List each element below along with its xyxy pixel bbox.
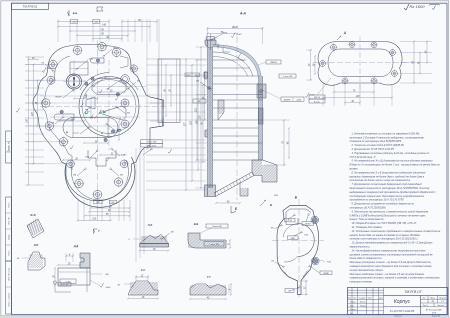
svg-text:Сч 20 ГОСТ 1412-85: Сч 20 ГОСТ 1412-85 bbox=[390, 309, 415, 313]
top view A inner stadium bbox=[328, 49, 393, 77]
svg-text:ТМ.РГВ.01: ТМ.РГВ.01 bbox=[22, 5, 37, 9]
svg-text:1×45°: 1×45° bbox=[121, 154, 127, 157]
svg-text:R4: R4 bbox=[17, 257, 19, 260]
svg-text:Д-Д: Д-Д bbox=[73, 244, 79, 248]
main view housing outline bbox=[33, 45, 163, 201]
view B lug circles bbox=[312, 217, 317, 222]
section A-A right wall bbox=[259, 76, 263, 160]
top view A axes bbox=[313, 62, 408, 64]
dimension chains above main view bbox=[57, 19, 59, 42]
svg-text:10. Общая Ø старлы по ГОСТ 8НИ: 10. Общая Ø старлы по ГОСТ 8НИКП (НВ, НR… bbox=[352, 222, 418, 225]
top-left designation stamp bbox=[12, 3, 49, 9]
svg-text:5. На поверхностях Ж и Щ: 5. На поверхностях Ж и Щ допускаются чис… bbox=[352, 160, 433, 163]
svg-text:поверхностям всей отливки, пер: поверхностям всей отливки, переход к сте… bbox=[350, 277, 441, 280]
section A-A left small lug bbox=[204, 72, 208, 78]
main view inner flange line bbox=[42, 56, 72, 170]
svg-text:0,4МПа с 0,3МПа (4кгс/см²±0: 0,4МПа с 0,3МПа (4кгс/см²±0,5кгс/см²) в … bbox=[350, 214, 427, 217]
svg-text:Ж-Ж: Ж-Ж bbox=[29, 213, 36, 217]
section A-A top flange stud detail bbox=[205, 40, 216, 47]
svg-text:Резьба М8: Резьба М8 bbox=[212, 226, 222, 228]
svg-text:Ø 0,1 АБ: Ø 0,1 АБ bbox=[60, 283, 69, 286]
svg-text:Н.контр.: Н.контр. bbox=[350, 309, 357, 311]
svg-text:1 отв. М8: 1 отв. М8 bbox=[283, 76, 293, 78]
main view inner pocket triangle bbox=[99, 106, 126, 120]
section A-A right boss hatch bbox=[257, 84, 266, 98]
svg-text:Корпус: Корпус bbox=[394, 299, 411, 305]
section A-A bottom diagonal wall bbox=[214, 172, 254, 197]
svg-text:Ø128: Ø128 bbox=[231, 27, 238, 29]
extension lines crossing main view bbox=[25, 79, 86, 81]
svg-text:нужное более 8мм, не менее: нужное более 8мм, не менее 12 мм/мм по с… bbox=[350, 234, 421, 237]
svg-text:1 отв. М8: 1 отв. М8 bbox=[209, 244, 219, 246]
svg-text:Подп. и дата: Подп. и дата bbox=[7, 292, 10, 306]
svg-text:Местные усадочные пленки – н: Местные усадочные пленки – не более 1,5 … bbox=[350, 273, 425, 276]
svg-text:Копировал: Копировал bbox=[394, 316, 402, 318]
svg-text:45°: 45° bbox=[171, 231, 174, 234]
svg-text:(Ø6 в 2СТ): (Ø6 в 2СТ) bbox=[146, 145, 156, 147]
title block left grid bbox=[351, 288, 353, 315]
tolerance box label phi30 bbox=[185, 73, 200, 77]
roughness mark left bbox=[42, 68, 46, 73]
svg-text:текущим стенкам.: текущим стенкам. bbox=[350, 281, 373, 284]
main view internal short dims bbox=[74, 98, 98, 100]
svg-text:1×45°: 1×45° bbox=[65, 281, 71, 284]
top view A dims bottom bbox=[322, 84, 324, 106]
svg-text:Лист 1: Лист 1 bbox=[423, 305, 428, 307]
section arrow B top-left bbox=[68, 10, 70, 16]
detail D-D dims bbox=[58, 264, 80, 266]
svg-text:Местные утолщения стенок – н: Местные утолщения стенок – не более 0,5 … bbox=[350, 261, 432, 264]
section A-A web detail bbox=[218, 100, 224, 120]
svg-text:Взам.: Взам. bbox=[8, 234, 10, 240]
svg-text:Ø6М8: Ø6М8 bbox=[322, 273, 329, 275]
svg-text:минут. Течь не допускается.: минут. Течь не допускается. bbox=[350, 218, 385, 221]
svg-text:8 отв.: 8 отв. bbox=[314, 101, 321, 103]
leader boxes lower right of main view bbox=[141, 140, 163, 144]
section A-A dims top bbox=[207, 27, 209, 40]
svg-text:Листов 2: Листов 2 bbox=[438, 305, 445, 307]
svg-text:4. Неуказанные литейные ради: 4. Неуказанные литейные радиусы 6-10 мм,… bbox=[352, 152, 430, 155]
green measure arrows bbox=[85, 110, 108, 114]
svg-text:параллельности.: параллельности. bbox=[350, 246, 371, 249]
svg-text:Rz 1600: Rz 1600 bbox=[410, 4, 426, 9]
svg-text:И-И: И-И bbox=[34, 243, 39, 247]
main view top small cut bbox=[120, 56, 128, 68]
svg-text:Инв. №: Инв. № bbox=[7, 217, 10, 225]
svg-text:Ø52H8: Ø52H8 bbox=[283, 99, 291, 101]
section A-A bottom foot bbox=[205, 185, 216, 197]
svg-text:14. На необработанных поверх: 14. На необработанных поверхностях допус… bbox=[352, 249, 427, 252]
roughness marks inside main view bbox=[80, 103, 83, 107]
main view rect boss above bore bbox=[70, 62, 88, 75]
svg-text:плавный переход) от него д: плавный переход) от него документ для от… bbox=[350, 265, 433, 268]
svg-text:Подп.: Подп. bbox=[7, 250, 10, 256]
svg-text:13. Допуск перпендикулярности: 13. Допуск перпендикулярности поверхност… bbox=[352, 242, 434, 245]
main view left slot bbox=[54, 114, 74, 120]
svg-text:ТМ.РГВ.ОТ: ТМ.РГВ.ОТ bbox=[404, 290, 422, 294]
svg-text:старения по инструкции 26.А.50: старения по инструкции 26.А.5076/85.0079… bbox=[350, 140, 403, 143]
section A-A left wall lugs bbox=[205, 72, 208, 137]
svg-text:последующим покрытием. Заготов: последующим покрытием. Заготовка после и… bbox=[350, 195, 425, 198]
svg-text:выдержанных поверхностей про: выдержанных поверхностей производить дро… bbox=[350, 191, 437, 194]
top view A bolt holes bbox=[331, 44, 337, 50]
svg-text:Л-Л: Л-Л bbox=[147, 223, 153, 227]
section A-A top S-curve wall bbox=[213, 45, 262, 76]
projection rectangle right of main view bbox=[158, 59, 180, 123]
dimension chains left of main view bbox=[25, 56, 44, 58]
title block right cells bbox=[421, 298, 448, 300]
section A-A dims left bbox=[196, 46, 208, 48]
small dims around section bottom bbox=[216, 202, 240, 204]
section arrow B bottom bbox=[231, 206, 236, 213]
main view lower flange inner arc bbox=[71, 160, 128, 200]
svg-text:8. Допускается устранение: 8. Допускается устранение литейных дефек… bbox=[352, 203, 415, 206]
svg-text:Иванов: Иванов bbox=[360, 302, 366, 304]
dimension chains below main view bbox=[77, 200, 79, 221]
main view central stadium pocket bbox=[63, 118, 118, 138]
section A-A center axis bbox=[236, 36, 238, 200]
top view A leader with thread label bbox=[317, 78, 331, 95]
main view internal leaders and callouts bbox=[78, 60, 88, 68]
svg-text:Разраб.: Разраб. bbox=[350, 302, 356, 304]
section A-A leader labels right bbox=[279, 74, 296, 78]
svg-text:Масса: Масса bbox=[430, 297, 435, 299]
svg-text:более 2мм по поверхности.: более 2мм по поверхности. bbox=[350, 257, 383, 260]
svg-text:Б-Б: Б-Б bbox=[73, 11, 78, 15]
svg-text:В: В bbox=[270, 203, 272, 207]
svg-text:Инв. № подл.: Инв. № подл. bbox=[7, 267, 10, 281]
left margin frame boxes bbox=[6, 131, 12, 163]
svg-text:Ø52H7: Ø52H7 bbox=[54, 97, 62, 99]
view B leader labels bbox=[288, 216, 293, 220]
view marker G below flange bbox=[94, 229, 98, 234]
svg-text:Ø30: Ø30 bbox=[186, 75, 192, 77]
detail D-D tolerance callout bbox=[53, 281, 56, 284]
main view small tapped holes bbox=[91, 77, 94, 80]
svg-text:прохождения по инструкции 26.А: прохождения по инструкции 26.А.70.170.70… bbox=[350, 199, 405, 202]
svg-text:Подп.: Подп. bbox=[7, 202, 10, 208]
section A-A lower right step bbox=[240, 182, 248, 196]
main view right large bore arc bbox=[79, 77, 139, 137]
svg-text:Справ. №: Справ. № bbox=[7, 141, 10, 152]
svg-text:раковины диаметром не более: раковины диаметром не более 3мм и глубин… bbox=[349, 175, 425, 178]
top view A oval cover outline bbox=[318, 42, 402, 86]
svg-text:Петров: Петров bbox=[360, 305, 366, 307]
view B inner arc bbox=[298, 224, 315, 257]
view B bottom U bbox=[284, 271, 308, 282]
svg-text:С-С: С-С bbox=[141, 268, 146, 272]
main view upper boss octagon bbox=[92, 79, 126, 95]
svg-text:точками слот-центры по инструк: точками слот-центры по инструкции 26.А.3… bbox=[350, 238, 419, 241]
main view lower flange outer arc bbox=[65, 157, 135, 207]
svg-text:2 отв.: 2 отв. bbox=[72, 133, 80, 135]
svg-text:срезания стенки оставленных: срезания стенки оставленных литниковых п… bbox=[350, 253, 434, 256]
dim chains between section and oval view bbox=[310, 50, 312, 80]
svg-text:Ø14: Ø14 bbox=[117, 80, 123, 83]
svg-text:12. Остальные технические тр: 12. Остальные технические требования и и… bbox=[352, 230, 441, 233]
svg-text:Ø85H9: Ø85H9 bbox=[269, 62, 277, 64]
section A-A dims right bottom bbox=[283, 120, 285, 165]
svg-text:210: 210 bbox=[27, 118, 29, 124]
main view center axes bbox=[108, 60, 110, 150]
svg-text:Ø6,6В: Ø6,6В bbox=[304, 224, 311, 226]
extension lines main to section bbox=[146, 58, 206, 60]
view flag G top bbox=[97, 7, 103, 12]
main view right lug bbox=[150, 97, 164, 128]
svg-text:А: А bbox=[343, 31, 347, 35]
title block name cell bbox=[420, 295, 422, 314]
svg-text:Подп.: Подп. bbox=[368, 298, 373, 300]
svg-text:+0,046: +0,046 bbox=[296, 98, 301, 101]
svg-text:А-А: А-А bbox=[239, 12, 247, 16]
svg-text:1. Неответственные со отливк: 1. Неответственные со отливки по наружны… bbox=[352, 132, 421, 135]
section A-A top wall step details bbox=[223, 48, 244, 62]
svg-text:2. Точность отливки 9-0-0-9 ГО: 2. Точность отливки 9-0-0-9 ГОСТ 26645-8… bbox=[351, 144, 405, 147]
svg-text:кромки.: кромки. bbox=[350, 168, 359, 171]
long vertical extension lines bbox=[146, 19, 148, 150]
svg-text:шишек Желаний всех общих.: шишек Желаний всех общих. bbox=[350, 269, 384, 272]
svg-text:7. Допускается остаточный: 7. Допускается остаточный дефектный слой… bbox=[352, 183, 423, 186]
svg-text:Пров.: Пров. bbox=[350, 305, 355, 307]
section A-A inner bore contour lines bbox=[213, 52, 253, 76]
svg-text:11. *Размеры для справок.: 11. *Размеры для справок. bbox=[352, 226, 383, 229]
svg-text:В-В: В-В bbox=[194, 222, 199, 226]
general surface roughness mark bbox=[404, 4, 409, 10]
svg-text:Масштаб: Масштаб bbox=[439, 297, 446, 299]
main view boss circle right bbox=[121, 75, 130, 84]
svg-text:6. На поверхностях З и Б: 6. На поверхностях З и Б допускаются отд… bbox=[352, 171, 427, 174]
main view left bore bbox=[66, 74, 81, 89]
section A-A extra labels bbox=[266, 60, 281, 64]
vertical dim chains between views bbox=[185, 59, 187, 190]
main view flange bolt holes bbox=[75, 179, 83, 187]
svg-text:Дата: Дата bbox=[379, 298, 382, 300]
top view A dims right bbox=[400, 41, 432, 43]
svg-text:ГОСТ 3212-92 пров. 1°.: ГОСТ 3212-92 пров. 1°. bbox=[350, 156, 377, 159]
svg-text:9. Жесткость на прочность и: 9. Жесткость на прочность и герметичност… bbox=[352, 210, 429, 213]
svg-text:безусловный толщиной по инс: безусловный толщиной по инструкции 26.А.… bbox=[350, 187, 431, 190]
section A-A left wall bbox=[208, 40, 213, 196]
svg-text:45°: 45° bbox=[118, 284, 121, 287]
view B bottom dim bbox=[301, 294, 308, 296]
svg-text:категория 2 Отливку 9 наносить: категория 2 Отливку 9 наносить выборочно… bbox=[350, 136, 425, 139]
section A-A internal horizontals bbox=[213, 59, 247, 61]
svg-text:Лист: Лист bbox=[353, 298, 357, 300]
section A-A bottom right flange bbox=[252, 160, 277, 182]
svg-text:Г-Г: Г-Г bbox=[207, 275, 211, 279]
svg-text:инструкции 26.А.70.2505/2069.: инструкции 26.А.70.2505/2069. bbox=[350, 207, 387, 210]
view B axes bbox=[298, 199, 300, 297]
svg-text:Ø10: Ø10 bbox=[88, 59, 94, 61]
svg-text:Ø 6мм до 3-х милиметров, не бо: Ø 6мм до 3-х милиметров, не более 2 шт.,… bbox=[349, 164, 440, 167]
main view vertical axis bbox=[97, 40, 99, 202]
svg-text:количестве не более шести штук: количестве не более шести штук на поверх… bbox=[350, 179, 412, 182]
view B outline bbox=[277, 206, 318, 295]
view B inner hat lines bbox=[286, 209, 311, 213]
title block frame bbox=[348, 288, 448, 315]
main view perimeter bolt holes bbox=[49, 60, 57, 68]
svg-text:3. Допускается ТУ 25 ГОСТ 4-02: 3. Допускается ТУ 25 ГОСТ 4-02-85. bbox=[352, 148, 395, 151]
svg-text:ВГ Колледж ЦМГ: ВГ Колледж ЦМГ bbox=[426, 309, 443, 311]
main view stepped pocket lines bbox=[88, 150, 116, 166]
title block designation cell bbox=[384, 294, 448, 296]
